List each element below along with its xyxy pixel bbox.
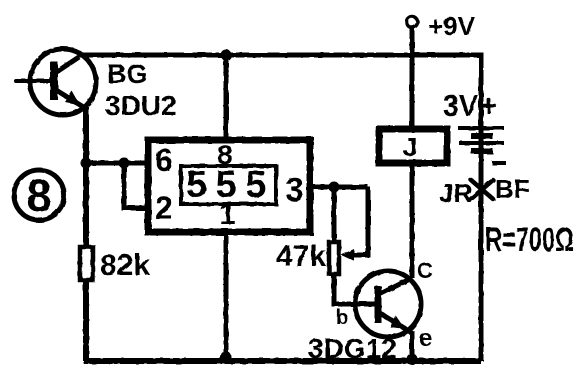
svg-text:BF: BF	[495, 174, 530, 204]
svg-text:2: 2	[155, 190, 173, 226]
svg-text:b: b	[336, 307, 348, 329]
svg-text:C: C	[417, 258, 433, 283]
svg-text:3V: 3V	[443, 88, 478, 123]
svg-text:J: J	[403, 132, 417, 162]
svg-text:R=700Ω: R=700Ω	[485, 221, 574, 259]
svg-text:JR: JR	[439, 178, 472, 208]
svg-text:8: 8	[26, 170, 51, 221]
svg-text:e: e	[419, 325, 432, 352]
svg-text:+: +	[480, 90, 498, 123]
svg-text:+9V: +9V	[428, 11, 476, 41]
svg-text:47k: 47k	[276, 240, 326, 273]
svg-text:3: 3	[285, 171, 304, 209]
svg-text:3DG12: 3DG12	[308, 333, 397, 364]
svg-text:3DU2: 3DU2	[105, 90, 177, 121]
svg-text:BG: BG	[107, 59, 148, 89]
svg-text:555: 555	[186, 164, 275, 206]
svg-text:6: 6	[155, 142, 173, 178]
svg-text:82k: 82k	[100, 249, 150, 282]
